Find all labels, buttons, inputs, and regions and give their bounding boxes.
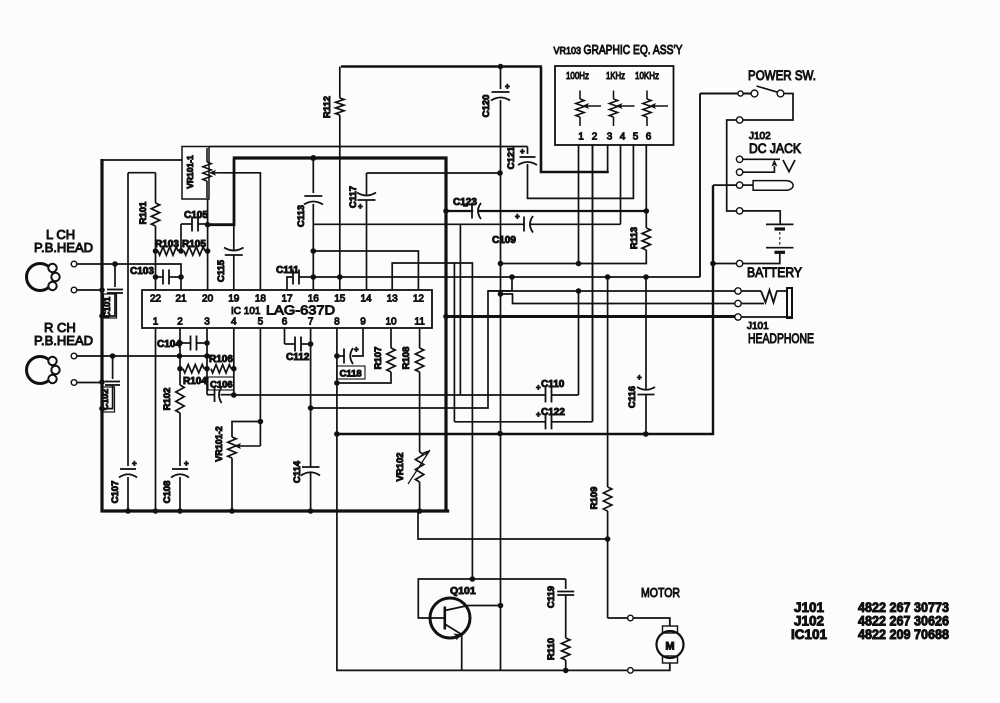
- transistor Q101: [430, 598, 470, 638]
- wire C121 bottom to EQ pin5 y198.4: [528, 145, 634, 198]
- junction headphone sleeve at supply bus: [443, 314, 449, 320]
- svg-text:VR102: VR102: [395, 452, 406, 481]
- svg-text:VR103: VR103: [554, 45, 582, 57]
- svg-text:4: 4: [620, 132, 626, 143]
- junction headphone middle at C120 column: [498, 291, 504, 297]
- wire R head lower to ground bus: [77, 382, 101, 384]
- svg-text:4822 209 70688: 4822 209 70688: [858, 627, 949, 642]
- junction pin3 column at R104/R106: [204, 366, 210, 372]
- wire headphone sleeve line y316 thick: [445, 315, 738, 318]
- terminal headphone tip: [735, 288, 741, 294]
- terminal battery return: [736, 260, 742, 266]
- junction R106 right at pin4 column: [231, 366, 237, 372]
- junction R109 column at motor return: [605, 536, 611, 542]
- resistor R103: [158, 247, 178, 255]
- wire output line y408 to headphone riser: [311, 291, 738, 408]
- wire EQ pin6 down through R113: [645, 145, 647, 228]
- svg-text:C104: C104: [157, 339, 181, 350]
- svg-text:R109: R109: [589, 487, 600, 510]
- svg-text:R106: R106: [209, 354, 233, 365]
- svg-text:GRAPHIC EQ. ASS’Y: GRAPHIC EQ. ASS’Y: [584, 42, 683, 57]
- svg-text:HEADPHONE: HEADPHONE: [748, 331, 814, 346]
- wire pin3 column: [206, 328, 208, 395]
- wire C105 riser from R103/R105 junction: [180, 224, 182, 251]
- wire switch output loop: [743, 94, 793, 121]
- wire motor feed line: [608, 618, 670, 626]
- wire C123 line y211: [445, 210, 646, 212]
- svg-text:C110: C110: [541, 379, 565, 390]
- wire C120 column lower stub to motor return line: [500, 606, 502, 671]
- svg-text:C103: C103: [130, 266, 154, 277]
- wire R101 top riser down to C107: [127, 173, 129, 466]
- resistor R101: [128, 172, 156, 174]
- svg-text:20: 20: [202, 294, 214, 305]
- wire ground bus bottom horizontal: [101, 509, 450, 512]
- capacitor C106: [207, 394, 215, 396]
- resistor R108 on pin11 column: [419, 328, 421, 348]
- wire battery negative return: [743, 252, 780, 263]
- junction R head wire at pin3 column: [204, 353, 210, 359]
- capacitor C103: [156, 276, 164, 278]
- svg-text:C101: C101: [102, 297, 112, 319]
- wire headphone middle line from C120 column: [501, 294, 739, 304]
- junction R113 line at C120 column: [498, 261, 504, 267]
- wire pin21 stub: [180, 277, 182, 290]
- junction L head wire at C101/R101 riser: [112, 261, 118, 267]
- wire switch tap to battery feed: [727, 120, 737, 211]
- capacitor C117 on pin14 column: [366, 173, 368, 196]
- junction C107 at ground bus: [125, 508, 131, 514]
- svg-text:1KHz: 1KHz: [606, 71, 625, 82]
- junction VR101-2 at ground bus: [229, 508, 235, 514]
- svg-text:1: 1: [153, 317, 159, 328]
- svg-text:R112: R112: [322, 96, 333, 118]
- resistor R107 on pin10 column: [390, 328, 392, 348]
- resistor R113: [642, 228, 650, 250]
- junction C108 at ground bus: [177, 508, 183, 514]
- svg-text:+: +: [520, 147, 525, 156]
- svg-text:17: 17: [281, 294, 293, 305]
- terminal switch tap: [736, 117, 742, 123]
- wire EQ pin3 stub to thick y172 line: [607, 145, 609, 172]
- svg-text:LAG-637D: LAG-637D: [266, 303, 335, 318]
- svg-text:+: +: [354, 345, 359, 354]
- terminal headphone ring: [735, 300, 741, 306]
- label C106 boxed: [208, 377, 234, 390]
- svg-text:10KHz: 10KHz: [635, 71, 659, 82]
- svg-text:P.B.HEAD: P.B.HEAD: [34, 333, 93, 348]
- svg-text:R105: R105: [182, 239, 206, 250]
- svg-text:14: 14: [360, 294, 372, 305]
- wire R113 bottom line y263.5 to C120 column: [500, 250, 646, 264]
- svg-text:R113: R113: [629, 227, 640, 249]
- junction C113 at supply bus: [310, 155, 316, 161]
- junction pin16 column at P line y277: [311, 274, 317, 280]
- wire DC jack common down x713 and y434 line: [337, 185, 713, 434]
- svg-text:IC 101: IC 101: [231, 306, 261, 317]
- capacitor C121: [527, 147, 529, 155]
- potentiometer VR101-1 wiper arrow to pin18 wire: [211, 172, 222, 174]
- junction EQ pin1 at R113 bottom line: [576, 261, 582, 267]
- wire Q101 base loop: [418, 579, 565, 618]
- wire EQ pin2 down to C122: [592, 145, 594, 422]
- resistor R106: [211, 365, 231, 373]
- wire L head upper to C103/pin21 riser: [77, 264, 181, 277]
- wire P line y277 C111 to power switch riser: [313, 276, 700, 278]
- wire ground bus left vertical: [100, 159, 103, 512]
- wire pin4 column: [233, 328, 235, 395]
- capacitor C116: [645, 277, 647, 390]
- svg-text:BATTERY: BATTERY: [747, 265, 802, 280]
- graphic equalizer VR103 box: [555, 66, 674, 145]
- svg-text:8: 8: [334, 317, 340, 328]
- svg-text:13: 13: [387, 294, 399, 305]
- junction pin20 column at R105: [205, 248, 211, 254]
- terminal battery feed: [736, 208, 742, 214]
- svg-text:R104: R104: [183, 376, 207, 387]
- potentiometer EQ 10KHz: [643, 99, 651, 117]
- svg-text:R107: R107: [373, 347, 384, 370]
- wire battery return to DC jack common: [713, 263, 736, 265]
- wire EQ pin1 down to R113 bottom line: [578, 145, 580, 264]
- junction pin2 column at C104: [177, 340, 183, 346]
- capacitor C112 pin6 to pin7: [285, 343, 296, 345]
- junction pin7 column at output line y408: [308, 405, 314, 411]
- junction R103/R105/C105 riser: [178, 248, 184, 254]
- svg-text:P.B.HEAD: P.B.HEAD: [34, 240, 93, 255]
- wire R head upper to pin3 column: [77, 355, 207, 357]
- wire motor return from ground bus x418: [418, 511, 608, 539]
- capacitor C101: [114, 264, 116, 287]
- svg-text:R110: R110: [546, 638, 557, 660]
- svg-text:POWER SW.: POWER SW.: [748, 68, 816, 83]
- svg-text:C111: C111: [276, 265, 299, 276]
- junction pin7 column at C112: [308, 341, 314, 347]
- svg-text:C102: C102: [100, 389, 110, 411]
- wire IC pin5 column: [259, 328, 261, 446]
- capacitor C118 pin8 to pin9: [337, 355, 344, 357]
- junction pin2 column at R104: [177, 366, 183, 372]
- svg-text:DC JACK: DC JACK: [749, 141, 801, 156]
- svg-text:+: +: [358, 202, 363, 211]
- potentiometer VR101-2: [232, 422, 260, 438]
- svg-text:2: 2: [177, 317, 183, 328]
- junction R head lower at ground bus: [99, 379, 105, 385]
- wire pin6 stub: [284, 328, 286, 344]
- terminal motor lower: [628, 668, 634, 674]
- svg-text:19: 19: [228, 294, 240, 305]
- IC IC101 LAG-637D box: [142, 290, 432, 328]
- junction VR101-1 bottom / C105 right / thick elbow: [205, 222, 211, 228]
- svg-text:R102: R102: [162, 388, 173, 411]
- junction L head lower at ground bus: [99, 287, 105, 293]
- svg-text:C116: C116: [627, 386, 638, 408]
- terminal motor upper: [628, 615, 634, 621]
- svg-text:MOTOR: MOTOR: [641, 585, 680, 600]
- DC jack barrel pin: [736, 182, 742, 188]
- junction C102 at ground bus: [99, 406, 105, 412]
- capacitor C119 on base bias column: [565, 579, 567, 589]
- junction pin8 column at R107 line: [334, 380, 340, 386]
- wire C117 top to C120 column y173: [367, 172, 501, 174]
- junction C123 line at R113 top: [644, 208, 650, 214]
- resistor R102 on pin2 column: [176, 385, 184, 413]
- svg-text:C119: C119: [546, 586, 557, 608]
- svg-text:+: +: [184, 459, 189, 468]
- resistor R105: [184, 247, 205, 255]
- svg-text:21: 21: [175, 294, 187, 305]
- svg-text:+: +: [505, 82, 510, 91]
- junction pin5 column at VR101-2 top: [258, 419, 264, 425]
- wire C110C109 link riser x460: [459, 224, 461, 395]
- svg-text:M: M: [665, 641, 674, 653]
- svg-text:12: 12: [413, 294, 425, 305]
- junction C103 right / pin21: [178, 274, 184, 280]
- junction R110 at emitter line: [563, 668, 569, 674]
- wire B+ riser x541 to EQ pin3 line: [541, 67, 609, 172]
- junction y434 at C120 column: [497, 431, 503, 437]
- resistor R112 on pin15 column: [339, 67, 341, 99]
- svg-text:IC101: IC101: [791, 627, 828, 642]
- label C101 boxed: [104, 294, 117, 318]
- svg-text:VR101-2: VR101-2: [214, 426, 224, 462]
- wire power switch riser x700: [699, 94, 701, 278]
- svg-text:C112: C112: [286, 352, 310, 363]
- svg-text:16: 16: [308, 294, 320, 305]
- svg-text:C115: C115: [216, 259, 227, 282]
- potentiometer VR101-1 element: [203, 162, 211, 181]
- tape head R symbol: [27, 357, 54, 384]
- capacitor C110: [542, 394, 546, 396]
- wire pin7 column to ground bus: [310, 328, 312, 511]
- junction pin22 column at R103: [153, 248, 159, 254]
- capacitor C102: [112, 356, 114, 379]
- wire VR101-1 bottom to C105 junction and pin20: [207, 199, 209, 290]
- DC jack V mark: [783, 160, 795, 172]
- svg-text:R101: R101: [138, 201, 149, 224]
- svg-text:4: 4: [231, 317, 237, 328]
- resistor R104: [183, 365, 204, 373]
- svg-text:C118: C118: [340, 369, 362, 380]
- capacitor C109 on y224.3 line: [525, 217, 530, 231]
- svg-text:22: 22: [150, 294, 162, 305]
- svg-text:C121: C121: [506, 146, 517, 169]
- svg-text:10: 10: [385, 317, 397, 328]
- junction top bus at C120: [498, 64, 504, 70]
- wire supply bus top horizontal y158: [233, 156, 448, 159]
- capacitor C115 on pin19 column: [233, 226, 235, 250]
- potentiometer EQ 1KHz: [609, 99, 617, 117]
- svg-text:9: 9: [360, 317, 366, 328]
- wire Q101 collector to C120 column: [468, 605, 501, 607]
- wire B+ top bus y67: [341, 65, 542, 68]
- capacitor C111 pin17 to pin16: [287, 277, 293, 290]
- potentiometer EQ 100Hz: [576, 99, 584, 117]
- svg-text:C120: C120: [481, 95, 492, 118]
- wire C113 column to pin12: [313, 251, 418, 290]
- wire EQ pin4 down to C109 line: [620, 145, 622, 224]
- junction P line at C116 column: [643, 274, 649, 280]
- terminal R head upper: [71, 353, 77, 359]
- label C118 boxed: [337, 366, 365, 379]
- potentiometer VR101-2 wiper arrow from pin5 column: [236, 445, 250, 447]
- tape head L symbol: [27, 264, 54, 291]
- svg-text:C109: C109: [492, 235, 516, 246]
- svg-text:+: +: [515, 212, 520, 221]
- svg-text:C107: C107: [110, 481, 121, 504]
- junction y173 at C120 column: [497, 170, 503, 176]
- svg-text:6: 6: [646, 132, 652, 143]
- capacitor C120 B+ column: [500, 67, 502, 90]
- wire pin8 column down to Q101 emitter line: [337, 328, 462, 670]
- svg-text:15: 15: [334, 294, 346, 305]
- resistor R110: [562, 638, 570, 660]
- terminal headphone sleeve: [735, 314, 741, 320]
- terminal L head upper: [71, 261, 77, 267]
- wire L head lower to ground bus: [77, 289, 101, 291]
- svg-text:5: 5: [258, 317, 264, 328]
- junction C101 at ground bus: [99, 313, 105, 319]
- capacitor C122: [454, 421, 545, 423]
- junction pin4 column at C106 line: [231, 392, 237, 398]
- svg-text:C113: C113: [296, 205, 307, 227]
- junction pin16 column at pin12 link: [311, 248, 317, 254]
- junction output line at C110 riser: [576, 288, 582, 294]
- wire pin2 column: [179, 328, 181, 385]
- svg-text:R103: R103: [155, 239, 179, 250]
- motor M symbol: [663, 626, 678, 633]
- svg-text:C114: C114: [292, 460, 303, 483]
- capacitor C104 pin2 to pin3: [180, 342, 191, 344]
- wire pin13 riser to Q101 base line x472: [392, 263, 472, 579]
- wire C109 line y224.3 from C113 column to EQ pin4: [313, 223, 620, 225]
- wire headphone tip staircase x512: [488, 277, 512, 291]
- wire DC jack pin contact to common down-wire: [713, 184, 736, 186]
- svg-text:7: 7: [308, 317, 314, 328]
- svg-text:C106: C106: [210, 380, 233, 391]
- potentiometer VR102: [415, 452, 423, 482]
- svg-text:1: 1: [578, 132, 584, 143]
- junction pin8 column at C118: [334, 353, 340, 359]
- svg-text:100Hz: 100Hz: [566, 71, 589, 82]
- svg-text:C105: C105: [184, 210, 208, 221]
- wire Q101 emitter lead: [461, 635, 463, 671]
- svg-text:18: 18: [255, 294, 267, 305]
- junction pin22 column at C103: [153, 274, 159, 280]
- wire supply bus right vertical x446: [444, 157, 447, 513]
- junction R head wire at pin2 column: [177, 353, 183, 359]
- junction pin15 column at P line y277: [337, 274, 343, 280]
- junction battery return at x713: [710, 261, 716, 267]
- svg-text:C122: C122: [541, 407, 565, 418]
- connector J102 DC jack: [736, 156, 742, 162]
- junction pin8 column at y434 line: [334, 431, 340, 437]
- junction C114 at ground bus: [308, 508, 314, 514]
- capacitor C108 on pin2 column: [172, 468, 188, 470]
- junction pin1 at ground bus: [153, 508, 159, 514]
- wire battery feed: [743, 211, 780, 225]
- svg-text:C108: C108: [162, 481, 173, 504]
- junction x472 at Q101 base line: [470, 576, 476, 582]
- wire VR101-1 wiper to IC pin18: [222, 173, 260, 290]
- label C102 boxed: [102, 387, 115, 412]
- svg-text:Q101: Q101: [450, 585, 476, 597]
- battery symbol: [766, 223, 794, 225]
- wire C122 left riser x454: [453, 264, 455, 422]
- svg-text:C123: C123: [453, 197, 477, 208]
- svg-text:6: 6: [282, 317, 288, 328]
- junction C123 line at supply bus: [443, 208, 449, 214]
- wire C106 line y395 to C110: [234, 394, 542, 396]
- terminal L head lower: [71, 287, 77, 293]
- junction pin3 column at C104: [204, 340, 210, 346]
- capacitor C123 on y211 line: [473, 205, 478, 218]
- junction collector at C120 column: [498, 603, 504, 609]
- junction P line at R109 column: [605, 274, 611, 280]
- svg-text:VR101-1: VR101-1: [185, 155, 195, 189]
- capacitor C107: [120, 468, 136, 470]
- wire ground corner to VR101-1 box: [102, 159, 182, 161]
- svg-text:R108: R108: [401, 347, 412, 370]
- capacitor C114 on pin7 column: [303, 468, 319, 472]
- wire pin1 column to ground bus: [155, 328, 157, 511]
- junction staircase at P line: [509, 274, 515, 280]
- power switch POWER SW.: [700, 93, 751, 95]
- junction VR102 at ground bus: [417, 508, 423, 514]
- capacitor C113 on pin16 column: [312, 160, 314, 194]
- junction y434 at C116: [643, 431, 649, 437]
- capacitor C105: [181, 223, 192, 225]
- svg-text:5: 5: [633, 132, 639, 143]
- resistor R109: [607, 277, 609, 487]
- wire motor bottom to emitter line: [462, 663, 670, 670]
- svg-text:2: 2: [592, 132, 598, 143]
- connector J101 headphone plug: [741, 290, 761, 292]
- wire C110 riser: [578, 291, 580, 395]
- svg-text:11: 11: [414, 317, 425, 328]
- svg-text:+: +: [637, 373, 642, 382]
- wire VR101-1 top to C121 line y146.5: [209, 146, 528, 148]
- svg-text:3: 3: [607, 132, 613, 143]
- junction R head wire at C102: [110, 353, 116, 359]
- svg-text:3: 3: [204, 317, 210, 328]
- wire thick elbow bus to C105 junction: [206, 159, 234, 224]
- svg-text:+: +: [132, 459, 137, 468]
- terminal R head lower: [71, 380, 77, 386]
- potentiometer VR101-1 box: [182, 147, 209, 200]
